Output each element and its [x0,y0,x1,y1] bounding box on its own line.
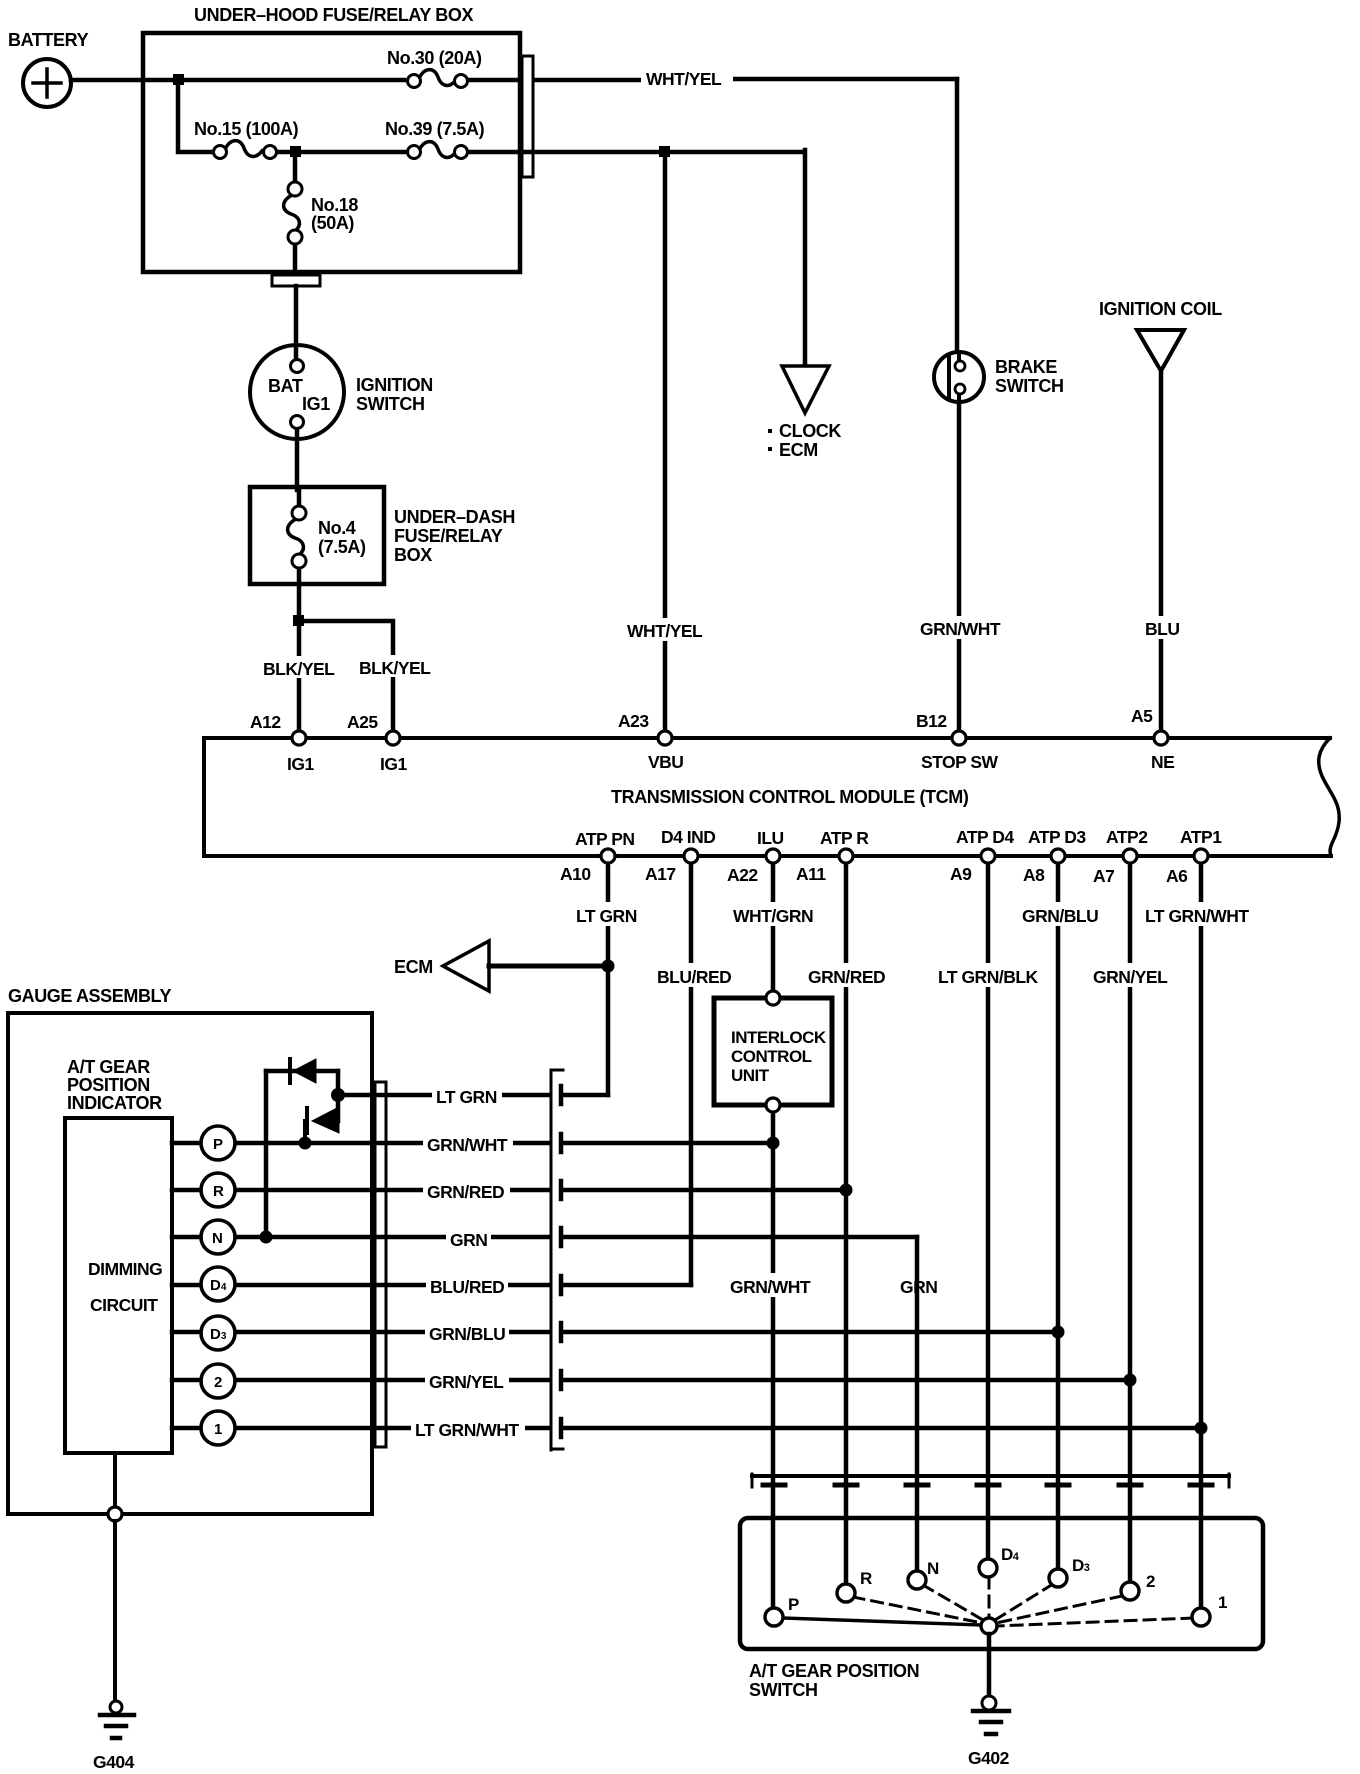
junction GRN/YEL row to ATP2 wire [1124,1374,1137,1387]
wire A10 LT GRN down [606,856,611,1095]
svg-text:(50A): (50A) [311,213,354,233]
wire ICU bottom to GRN/WHT row and down to switch P [771,1105,776,1617]
svg-text:A5: A5 [1131,706,1153,726]
svg-text:R: R [860,1569,872,1588]
gauge side connector strip [375,1082,386,1447]
dashed contact line to D3 [995,1584,1053,1620]
svg-text:N: N [212,1230,223,1247]
wire ignition switch to under-dash box [295,430,300,490]
svg-text:CIRCUIT: CIRCUIT [90,1295,158,1315]
ground G402 [968,1696,1010,1768]
connector ticks at each row [559,1086,564,1437]
ECM arrow [394,941,489,991]
svg-text:B12: B12 [916,711,947,731]
svg-text:No.18: No.18 [311,195,358,215]
wire label WHT/YEL at A23 [623,618,711,641]
switch terminal 2 [1121,1582,1139,1600]
connector at fuse box right edge [522,56,533,177]
wire A22 ILU down to interlock unit [771,856,776,998]
terminal A11 ATP R [839,849,853,863]
svg-text:GRN/YEL: GRN/YEL [429,1372,504,1392]
wire to TCM A23 [663,152,668,738]
diode D1 [290,1059,316,1083]
svg-text:LT GRN/WHT: LT GRN/WHT [415,1420,519,1440]
connector below fuse box [272,275,320,286]
wire label GRN/WHT (ILU wire) [726,1273,816,1297]
svg-text:GRN/YEL: GRN/YEL [1093,967,1168,987]
svg-text:No.39 (7.5A): No.39 (7.5A) [385,119,485,139]
svg-text:G402: G402 [968,1748,1010,1768]
wire label LT GRN/WHT row [411,1416,525,1440]
svg-text:GRN/BLU: GRN/BLU [1022,906,1098,926]
svg-text:A25: A25 [347,712,378,732]
svg-text:ECM: ECM [779,440,818,460]
svg-text:R: R [213,1183,224,1200]
svg-text:GRN/WHT: GRN/WHT [730,1277,811,1297]
under-dash fuse/relay box [250,487,515,584]
svg-text:INDICATOR: INDICATOR [67,1093,162,1113]
wire label LT GRN (A10) [572,902,642,926]
diode D2 [305,1107,339,1143]
svg-text:A10: A10 [560,864,591,884]
svg-text:A6: A6 [1166,866,1188,886]
svg-text:LT GRN/WHT: LT GRN/WHT [1145,906,1249,926]
diode circuit top wire [266,1069,338,1074]
svg-text:LT GRN: LT GRN [576,906,637,926]
svg-text:A11: A11 [796,864,826,884]
wire branch down to row2 [178,80,210,152]
svg-text:WHT/YEL: WHT/YEL [646,69,722,89]
ignition coil [1099,299,1222,371]
svg-text:A23: A23 [618,711,649,731]
switch terminal P [765,1608,783,1626]
svg-text:IG1: IG1 [380,754,407,774]
dashed contact line to N [923,1585,983,1620]
svg-text:LT GRN: LT GRN [436,1087,497,1107]
fuse No.39 (7.5A) [385,119,485,159]
wire label WHT/GRN (A22) [729,902,818,926]
junction row2 to fuse No.18 [290,146,301,157]
terminal ICU bottom [766,1098,780,1112]
svg-text:No.30 (20A): No.30 (20A) [387,48,482,68]
svg-text:GAUGE ASSEMBLY: GAUGE ASSEMBLY [8,986,171,1006]
svg-text:No.15 (100A): No.15 (100A) [194,119,299,139]
wire label GRN/YEL row [425,1368,509,1392]
junction GRN/WHT row to ILU wire [767,1137,780,1150]
wire under-dash box to TCM A12 [297,584,302,738]
switch harness connector bar [752,1474,1229,1487]
fuse No.4 (7.5A) [288,490,366,584]
svg-text:LT GRN/BLK: LT GRN/BLK [938,967,1039,987]
svg-text:A17: A17 [645,864,676,884]
wire GRN down to switch N [915,1237,920,1580]
svg-text:GRN/WHT: GRN/WHT [920,619,1001,639]
svg-text:ECM: ECM [394,957,433,977]
wire label LT GRN/BLK (A9) [934,963,1039,987]
fuse No.18 (50A) vertical [284,152,359,285]
wire label GRN/YEL (A7) [1089,963,1171,987]
wire A17 BLU/RED down, corner left at D4 row [689,856,694,1285]
wire common to G402 [987,1634,992,1696]
indicator bulb D3 [201,1316,235,1350]
svg-text:ATP R: ATP R [820,828,869,848]
svg-text:P: P [213,1136,223,1153]
svg-text:D3: D3 [1072,1556,1090,1575]
svg-text:A/T GEAR: A/T GEAR [67,1057,150,1077]
wire ATP R down to switch R [844,856,849,1593]
svg-text:DIMMING: DIMMING [88,1259,162,1279]
brake switch [934,352,1064,403]
wire branch to A25 [299,621,393,738]
svg-text:NE: NE [1151,752,1174,772]
junction LT GRN/WHT row to ATP1 wire [1195,1422,1208,1435]
wire label GRN (N wire) [896,1273,941,1297]
svg-text:A7: A7 [1093,866,1114,886]
battery B1 [8,30,89,107]
svg-text:A22: A22 [727,865,758,885]
switch common terminal [981,1618,997,1634]
dashed contact line to 2 [996,1596,1122,1623]
ignition switch [250,345,433,439]
wire label WHT/YEL row1 [641,66,733,90]
wire ATP D3 down to switch D3 [1056,856,1061,1578]
ground G404 [93,1701,135,1772]
svg-text:GRN/WHT: GRN/WHT [427,1135,508,1155]
A/T gear position switch box [740,1518,1263,1700]
wire label BLU/RED row [426,1273,508,1297]
svg-text:BLU/RED: BLU/RED [430,1277,504,1297]
diode circuit right vertical to LT GRN row [336,1071,341,1121]
wire GRN/RED row (R) [172,1188,846,1193]
wire label BLK/YEL left [258,656,340,679]
svg-text:IGNITION: IGNITION [356,375,433,395]
wire label GRN/RED (A11) [804,963,887,987]
svg-text:ATP1: ATP1 [1180,827,1222,847]
svg-text:IG1: IG1 [287,754,314,774]
dimming circuit box [65,1118,172,1453]
wire GRN/YEL row (2) [172,1378,1130,1383]
wire label GRN/BLU (A8) [1018,902,1098,926]
wire LT GRN/WHT row (1) [172,1426,1201,1431]
svg-text:BLK/YEL: BLK/YEL [359,658,431,678]
svg-text:D4: D4 [1001,1545,1020,1564]
fuse No.30 (20A) [387,48,482,88]
svg-text:TRANSMISSION CONTROL MODULE (T: TRANSMISSION CONTROL MODULE (TCM) [611,787,969,807]
switch terminal D3 [1049,1569,1067,1587]
wire label LT GRN/WHT (A6) [1141,902,1259,926]
svg-text:GRN: GRN [450,1230,487,1250]
svg-text:No.4: No.4 [318,518,356,538]
switch contact line P to common (solid) [782,1618,981,1625]
interlock control unit box [714,998,832,1105]
terminal A6 ATP1 [1194,849,1208,863]
junction diode to LT GRN row [331,1088,345,1102]
terminal A25 [386,731,400,745]
junction below under-dash box [293,615,304,626]
switch terminal D4 [979,1559,997,1577]
switch terminal R [837,1584,855,1602]
dashed contact line to D4 [988,1577,991,1617]
wire fuse box to ignition switch [294,286,299,360]
terminal A17 D4 IND [684,849,698,863]
svg-text:A8: A8 [1023,865,1045,885]
wire BLU/RED row (D4) [172,1283,691,1288]
svg-text:BLU: BLU [1145,619,1179,639]
svg-text:WHT/GRN: WHT/GRN [733,906,813,926]
junction diode to N row [260,1231,273,1244]
wire label BLU/RED (A17) [653,963,732,987]
svg-text:CLOCK: CLOCK [779,421,841,441]
svg-text:A9: A9 [950,864,972,884]
svg-text:BLK/YEL: BLK/YEL [263,659,335,679]
under-hood fuse/relay box [143,5,520,272]
gauge assembly box [8,986,372,1514]
wire label GRN/WHT at B12 [916,616,1006,639]
terminal A7 ATP2 [1123,849,1137,863]
junction GRN/BLU row to ATP D3 wire [1052,1326,1065,1339]
terminal A10 ATP PN [601,849,615,863]
svg-text:FUSE/RELAY: FUSE/RELAY [394,526,503,546]
wire label GRN/BLU row [425,1320,509,1344]
svg-text:D4 IND: D4 IND [661,827,715,847]
wire LT GRN row [338,1093,608,1098]
wire row2 corner down to clock/ecm [803,150,808,366]
dashed contact line to 1 [997,1618,1193,1626]
svg-text:GRN/RED: GRN/RED [808,967,885,987]
svg-text:POSITION: POSITION [67,1075,150,1095]
wire GRN row (N) [172,1235,917,1240]
indicator bulb 1 [201,1411,235,1445]
svg-text:ILU: ILU [757,828,784,848]
wire ATP1 down to switch 1 [1199,856,1204,1617]
svg-text:ATP D4: ATP D4 [956,827,1014,847]
wire brake switch to TCM B12 [957,402,962,738]
switch terminal 1 [1192,1608,1210,1626]
junction diode D2 to P row [299,1137,312,1150]
wire ECM to LT GRN junction [489,964,608,969]
junction row2 to A23 [659,146,670,157]
svg-text:INTERLOCK: INTERLOCK [731,1028,827,1047]
arrow to CLOCK ECM [768,366,841,460]
wire ATP D4 down to switch D4 [986,856,991,1568]
svg-text:IG1: IG1 [302,394,330,414]
wire label GRN row [446,1226,491,1250]
svg-text:ATP PN: ATP PN [575,829,635,849]
wire GRN/WHT row (P) [172,1141,773,1146]
dashed contact line to R [853,1597,982,1623]
terminal A5 [1154,731,1168,745]
svg-text:SWITCH: SWITCH [749,1680,818,1700]
indicator bulb P [201,1126,235,1160]
indicator bulb N [201,1220,235,1254]
indicator bulb D4 [201,1267,235,1301]
svg-text:CONTROL: CONTROL [731,1047,812,1066]
terminal A22 ILU [766,849,780,863]
svg-text:BOX: BOX [394,545,432,565]
wire label BLK/YEL right [355,655,437,678]
connector ticks at each switch wire [763,1483,1212,1488]
wire ATP2 down to switch 2 [1128,856,1133,1591]
transmission control module TCM box [204,738,1339,856]
svg-text:1: 1 [1218,1593,1227,1612]
svg-text:GRN/RED: GRN/RED [427,1182,504,1202]
junction GRN/RED row to ATP R wire [840,1184,853,1197]
svg-text:WHT/YEL: WHT/YEL [627,621,703,641]
diode circuit left vertical to N row [264,1071,269,1237]
wire ignition coil to TCM A5 [1159,371,1164,738]
svg-text:IGNITION COIL: IGNITION COIL [1099,299,1222,319]
indicator bulb 2 [201,1364,235,1398]
svg-text:GRN/BLU: GRN/BLU [429,1324,505,1344]
wire label GRN/RED row [423,1178,510,1202]
wire label LT GRN row [432,1083,502,1107]
junction on row1 at battery branch [173,74,184,85]
terminal B12 [952,731,966,745]
svg-text:(7.5A): (7.5A) [318,537,366,557]
svg-text:2: 2 [1146,1572,1155,1591]
svg-text:N: N [927,1559,939,1578]
terminal A23 [658,731,672,745]
wire gauge to G404 [113,1521,117,1700]
svg-text:P: P [788,1595,799,1614]
wire GRN/BLU row (D3) [172,1330,1058,1335]
terminal ICU top [766,991,780,1005]
svg-text:BATTERY: BATTERY [8,30,89,50]
switch terminal N [908,1571,926,1589]
svg-text:SWITCH: SWITCH [356,394,425,414]
svg-text:SWITCH: SWITCH [995,376,1064,396]
svg-text:BLU/RED: BLU/RED [657,967,731,987]
svg-text:G404: G404 [93,1752,135,1772]
junction ECM on LT GRN wire [602,960,615,973]
svg-text:UNDER–HOOD FUSE/RELAY BOX: UNDER–HOOD FUSE/RELAY BOX [194,5,473,25]
wire dimming circuit to ground junction [113,1453,117,1514]
svg-text:ATP2: ATP2 [1106,827,1148,847]
svg-text:UNIT: UNIT [731,1066,770,1085]
svg-text:A/T GEAR POSITION: A/T GEAR POSITION [749,1661,919,1681]
svg-text:A12: A12 [250,712,281,732]
indicator bulb R [201,1173,235,1207]
terminal A9 ATP D4 [981,849,995,863]
svg-text:ATP D3: ATP D3 [1028,827,1086,847]
fuse No.15 (100A) [194,119,299,159]
wire battery to fuse box row1 WHT/YEL [71,79,957,354]
svg-text:UNDER–DASH: UNDER–DASH [394,507,515,527]
wire row2 [279,150,803,155]
svg-text:VBU: VBU [648,752,683,772]
wire label BLU at A5 [1141,616,1185,639]
svg-text:2: 2 [214,1374,222,1391]
svg-text:1: 1 [214,1421,222,1438]
terminal A8 ATP D3 [1051,849,1065,863]
svg-text:STOP SW: STOP SW [921,752,999,772]
svg-text:BAT: BAT [268,376,303,396]
ground junction at gauge bottom [108,1507,122,1521]
wire label GRN/WHT row [423,1131,513,1155]
svg-text:BRAKE: BRAKE [995,357,1057,377]
terminal A12 [292,731,306,745]
harness connector line [551,1070,563,1450]
